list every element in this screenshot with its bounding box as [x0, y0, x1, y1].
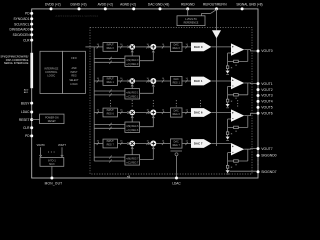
wire bus to C register ch6: [94, 127, 125, 129]
wire DAC reg to DAC ch0: [182, 46, 191, 48]
pin SIGGND7: [257, 170, 260, 173]
svg-text:SERIAL INTERFACE: SERIAL INTERFACE: [4, 61, 29, 65]
svg-text:VOUT3: VOUT3: [261, 94, 272, 98]
wire bus to input reg 1: [94, 80, 103, 82]
wire multiplier to adder ch1: [135, 80, 150, 82]
svg-text:×8: ×8: [127, 174, 131, 178]
wire bus to M register ch6: [94, 123, 125, 125]
svg-text:REFERENCE: REFERENCE: [184, 21, 199, 24]
svg-text:REFOUT/REFIN: REFOUT/REFIN: [203, 3, 227, 7]
svg-text:MON_OUT: MON_OUT: [45, 182, 63, 186]
svg-text:SIGGND7: SIGGND7: [261, 170, 276, 174]
pin VOUT5: [257, 106, 260, 109]
gain resistor leg ch6: [227, 119, 229, 137]
gain resistor R ch0: [226, 66, 228, 69]
FIFO and channel select box: [63, 51, 86, 93]
wire multiplier to adder ch7: [135, 143, 150, 145]
pin DIN/SDA/AD0: [30, 28, 33, 31]
wire M reg to multiplier ch6: [131, 116, 133, 122]
multiplier (x M) ch1: [129, 78, 135, 84]
gain resistor R ch7: [226, 165, 228, 168]
M and C register box ch6: [125, 122, 140, 132]
pin REFOUT/REFIN: [215, 7, 218, 10]
wire adder to DAC reg ch0: [156, 46, 170, 48]
svg-text:PD: PD: [25, 12, 30, 16]
wire input reg to multiplier ch1: [118, 80, 128, 82]
svg-text:×(M) REG 7: ×(M) REG 7: [126, 158, 139, 161]
wire DAC to amp ch6: [211, 112, 231, 114]
wire adder to DAC reg ch1: [156, 80, 170, 82]
svg-text:+(C) REG 6: +(C) REG 6: [126, 130, 139, 132]
M and C register box ch0: [125, 56, 140, 66]
gain resistor leg ch0: [227, 53, 229, 71]
wire amp output to VOUT7 pin: [244, 148, 256, 151]
svg-text:AGND (×2): AGND (×2): [120, 3, 136, 7]
wire bus to input reg 6: [94, 112, 103, 114]
data bus trunk: [93, 47, 95, 161]
wire bus to input reg 7: [94, 143, 103, 145]
pin VOUT4: [257, 100, 260, 103]
DAC register box ch1: [171, 76, 183, 85]
svg-text:RESET: RESET: [48, 120, 57, 123]
wire C reg to adder ch1: [140, 85, 154, 94]
pin VOUT1: [257, 82, 260, 85]
svg-text:VOUT6: VOUT6: [261, 112, 272, 116]
wire adder to DAC reg ch6: [156, 112, 170, 114]
signal ground arrow ch0: [226, 71, 230, 75]
8-to-1 mux box: [40, 158, 64, 167]
svg-text:DIN/SDA/AD0: DIN/SDA/AD0: [9, 28, 29, 32]
adder (+ C) ch7: [150, 141, 156, 147]
pin VOUT3: [257, 94, 260, 97]
feedback resistor R ch7: [234, 160, 239, 162]
reference switch: [211, 10, 217, 14]
adder (+ C) ch0: [150, 44, 156, 50]
pin VOUT7: [257, 147, 260, 150]
pin AGND: [132, 7, 135, 10]
pin PD: [30, 12, 33, 15]
feedback resistor R ch0: [234, 60, 239, 62]
wire reference to switch: [201, 13, 203, 15]
wire amp output to VOUT1 pin: [244, 82, 256, 85]
pin DGND: [78, 7, 81, 10]
svg-text:+(C) REG 7: +(C) REG 7: [126, 163, 139, 165]
svg-text:VOUT5: VOUT5: [261, 106, 272, 110]
input register box ch6: [103, 108, 118, 117]
pin VOUT2: [257, 88, 260, 91]
svg-text:CLR: CLR: [23, 126, 30, 130]
pin DACGND: [159, 7, 162, 10]
gain resistor R ch6: [226, 132, 228, 135]
internal reference box: [177, 16, 205, 26]
wire mux to MON_OUT: [51, 166, 53, 178]
svg-text:VOUT0: VOUT0: [37, 144, 46, 147]
wire C reg to adder ch7: [140, 147, 154, 159]
LDAC bubble: [175, 153, 178, 156]
svg-text:DGND (×3): DGND (×3): [70, 3, 86, 7]
svg-text:INPUT: INPUT: [70, 71, 78, 74]
svg-text:REG 6: REG 6: [173, 113, 181, 116]
pin REFGND: [186, 7, 189, 10]
svg-text:SIGGND0: SIGGND0: [261, 154, 276, 158]
svg-text:+(C) REG 1: +(C) REG 1: [126, 96, 139, 98]
wire DAC reg to DAC ch7: [182, 143, 191, 145]
wire VOUT0 to mux: [40, 147, 42, 156]
wire bus to M register ch0: [94, 57, 125, 59]
svg-text:REG 7: REG 7: [107, 143, 115, 146]
signal ground arrow ch6: [226, 137, 230, 141]
gain resistor leg ch7: [227, 153, 229, 171]
reference buffer amp: [212, 30, 221, 38]
data bus wire FIFO to trunk: [85, 46, 94, 48]
feedback wire ch0: [247, 50, 249, 62]
reference rail: [216, 38, 218, 146]
pin BUSY: [30, 102, 33, 105]
svg-text:DAC 1: DAC 1: [194, 79, 203, 83]
svg-text:LDAC: LDAC: [172, 182, 181, 186]
wire input reg to multiplier ch7: [118, 143, 128, 145]
wire LDAC: [176, 156, 178, 178]
svg-text:LDAC: LDAC: [21, 110, 30, 114]
svg-text:REG 0: REG 0: [107, 47, 115, 50]
SIGGND ellipsis: [258, 160, 259, 161]
wire VOUT7 to mux: [61, 147, 63, 156]
wire input reg to multiplier ch0: [118, 46, 128, 48]
svg-text:×(M) REG 0: ×(M) REG 0: [126, 59, 139, 62]
wire bus to input reg 0: [94, 46, 103, 48]
svg-text:REG: REG: [71, 74, 76, 77]
DAC register box ch0: [171, 42, 183, 51]
wire C reg to adder ch6: [140, 116, 154, 127]
channel repetition ellipsis: [110, 100, 111, 101]
wire M reg to multiplier ch7: [131, 147, 133, 155]
svg-text:VOUT2: VOUT2: [261, 88, 272, 92]
DAC reg load strobe bar: [171, 150, 183, 152]
svg-text:REG 6: REG 6: [107, 112, 115, 115]
gain resistor R ch1: [226, 99, 228, 102]
svg-text:PD: PD: [25, 134, 30, 138]
DAC 0: [191, 43, 211, 52]
svg-text:VOUT1: VOUT1: [261, 82, 272, 86]
wire adder to DAC reg ch7: [156, 143, 170, 145]
svg-text:VOUT7: VOUT7: [58, 144, 67, 147]
svg-text:AD5390/AD5391/AD5392: AD5390/AD5391/AD5392: [55, 14, 98, 18]
svg-text:REFGND: REFGND: [181, 3, 195, 7]
svg-text:DAC GND (×8): DAC GND (×8): [148, 3, 169, 7]
pin SIGGND0: [257, 154, 260, 157]
pin DVDD: [50, 7, 53, 10]
svg-text:SYNC/AD1: SYNC/AD1: [14, 17, 30, 21]
wire DAC reg to DAC ch1: [182, 80, 191, 82]
op-amp output buffer ch0: [231, 43, 244, 55]
pin PD: [30, 134, 33, 137]
svg-text:SELECT: SELECT: [69, 79, 79, 82]
signal ground arrow ch1: [226, 104, 230, 108]
multiplier (x M) ch0: [129, 44, 135, 50]
wire bus to M register ch7: [94, 156, 125, 158]
wire C reg to adder ch0: [140, 51, 154, 61]
input register box ch0: [103, 43, 118, 52]
feedback wire ch7: [247, 149, 249, 161]
svg-text:MUX: MUX: [49, 163, 55, 166]
pin CLR: [30, 126, 33, 129]
DAC 7: [191, 139, 211, 148]
chip outline: [32, 9, 258, 178]
wire M reg to multiplier ch1: [131, 84, 133, 88]
svg-text:SIGNAL GND (×8): SIGNAL GND (×8): [236, 3, 262, 7]
svg-text:VOUT7: VOUT7: [261, 147, 272, 151]
wire bus to M register ch1: [94, 90, 125, 92]
multiplier (x M) ch7: [129, 141, 135, 147]
wire input reg to multiplier ch6: [118, 112, 128, 114]
wire DAC to amp ch1: [211, 80, 231, 82]
input register box ch7: [103, 139, 118, 148]
adder (+ C) ch1: [150, 78, 156, 84]
pin SIGNAL GND: [241, 7, 244, 10]
feedback wire ch6: [247, 116, 249, 128]
wire DAC to amp ch7: [211, 143, 231, 145]
DAC register box ch6: [171, 108, 183, 117]
svg-text:AND: AND: [71, 67, 76, 70]
pin MON_OUT: [50, 177, 53, 180]
wire REFOUT/REFIN to buffer: [216, 9, 218, 31]
power-on reset box: [40, 114, 64, 124]
feedback wire ch1: [247, 83, 249, 95]
wire amp output to VOUT0 pin: [244, 50, 256, 51]
wire amp output to VOUT6 pin: [244, 113, 256, 115]
svg-text:LOGIC: LOGIC: [70, 83, 78, 86]
svg-text:CLR: CLR: [23, 38, 30, 42]
pin SDO/DCEN: [30, 33, 33, 36]
mux input ellipsis: [47, 151, 50, 154]
svg-text:×(M) REG 1: ×(M) REG 1: [126, 91, 139, 94]
M and C register box ch7: [125, 155, 140, 165]
DAC 6: [191, 108, 211, 117]
svg-text:DAC 6: DAC 6: [194, 111, 203, 115]
wire DAC to amp ch0: [211, 46, 231, 48]
svg-text:FIFO: FIFO: [71, 57, 77, 60]
svg-text:VOUT0: VOUT0: [261, 49, 272, 53]
pin LDAC: [175, 177, 178, 180]
wire RESET to POR: [32, 119, 40, 121]
feedback resistor R ch1: [234, 94, 239, 96]
pin VOUT0: [257, 50, 260, 53]
svg-text:LOGIC: LOGIC: [47, 75, 55, 78]
svg-text:AVDD (×2): AVDD (×2): [98, 3, 113, 7]
wire bus to C register ch1: [94, 94, 125, 96]
svg-text:+(C) REG 0: +(C) REG 0: [126, 64, 139, 66]
M and C register box ch1: [125, 89, 140, 99]
wire multiplier to adder ch0: [135, 46, 150, 48]
input register box ch1: [103, 77, 118, 86]
svg-text:BUSY: BUSY: [21, 101, 31, 105]
pin VOUT6: [257, 112, 260, 115]
feedback resistor R ch6: [234, 126, 239, 128]
wire signal ground to SIGGND pins: [230, 170, 257, 172]
pin AVDD: [104, 7, 107, 10]
multiplier (x M) ch6: [129, 110, 135, 116]
wire M reg to multiplier ch0: [131, 50, 133, 56]
pin RESET: [30, 118, 33, 121]
svg-text:INTERFACE: INTERFACE: [44, 67, 58, 70]
svg-text:CONTROL: CONTROL: [45, 71, 58, 74]
svg-text:REG 1: REG 1: [107, 81, 115, 84]
svg-text:DVDD (×2): DVDD (×2): [45, 3, 61, 7]
signal ground arrow ch7: [226, 170, 230, 174]
serial bus pin bar: [30, 53, 33, 88]
svg-text:RESET: RESET: [19, 118, 30, 122]
svg-text:REG 0: REG 0: [173, 47, 181, 50]
op-amp output buffer ch7: [231, 143, 244, 155]
svg-text:REG 7: REG 7: [173, 144, 181, 147]
wire REFGND pin to reference box: [187, 9, 189, 16]
svg-text:VOUT4: VOUT4: [261, 100, 272, 104]
svg-text:REG 1: REG 1: [173, 81, 181, 84]
svg-text:SCLK/SCL: SCLK/SCL: [14, 22, 30, 26]
pin SYNC/AD1: [30, 17, 33, 20]
adder (+ C) ch6: [150, 110, 156, 116]
wire DAC reg to DAC ch6: [182, 112, 191, 114]
svg-text:×(M) REG 6: ×(M) REG 6: [126, 125, 139, 128]
interface control logic box U-IF: [40, 51, 63, 93]
DAC 1: [191, 77, 211, 86]
wire multiplier to adder ch6: [135, 112, 150, 114]
gain resistor leg ch1: [227, 86, 229, 104]
op-amp output buffer ch6: [231, 109, 244, 121]
wire bus to C register ch0: [94, 61, 125, 63]
pin SCLK/SCL: [30, 23, 33, 26]
pin LDAC: [30, 111, 33, 114]
pin CLR: [30, 39, 33, 42]
dashed channel-group box: [90, 28, 252, 175]
svg-text:SDO/DCEN: SDO/DCEN: [13, 33, 31, 37]
op-amp output buffer ch1: [231, 77, 244, 89]
wire bus to C register ch7: [94, 160, 125, 162]
svg-text:DAC 0: DAC 0: [194, 45, 203, 49]
svg-text:DAC 7: DAC 7: [194, 142, 203, 146]
DAC register box ch7: [171, 139, 183, 148]
